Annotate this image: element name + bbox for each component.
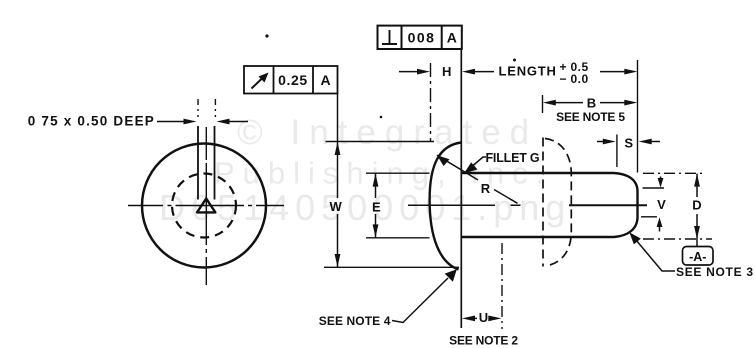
horizontal centerline [128, 205, 284, 207]
stray speck 3 [380, 116, 383, 119]
feature control frame 0.25 A [244, 66, 338, 94]
svg-text:0 75 x 0.50 DEEP: 0 75 x 0.50 DEEP [28, 113, 155, 128]
shank end ext line [637, 60, 639, 173]
hole width dim right arrow [228, 121, 248, 123]
svg-text:E: E [372, 199, 381, 214]
S left arrow [597, 141, 604, 143]
svg-text:H: H [442, 64, 451, 79]
W ext line top [326, 141, 435, 143]
R radius line [437, 155, 518, 203]
E ext line bottom [366, 237, 430, 239]
svg-text:D65140500001.png: D65140500001.png [159, 187, 571, 228]
W ext line bottom [324, 266, 459, 268]
svg-text:0.25: 0.25 [278, 72, 308, 88]
extension line left (dash-dot) [197, 99, 199, 117]
svg-text:SEE NOTE 2: SEE NOTE 2 [449, 333, 518, 347]
side view centerline [408, 204, 521, 206]
B left arrow [543, 100, 556, 106]
W bottom arrow [335, 254, 341, 267]
svg-text:LENGTH: LENGTH [499, 63, 557, 78]
head outline [430, 143, 461, 270]
svg-text:-A-: -A- [689, 250, 706, 264]
frame leader / W dimension line [337, 94, 339, 268]
runout symbol arrow [252, 78, 264, 89]
dashed circle (shank hidden) [172, 174, 236, 238]
hole edge right [214, 126, 216, 200]
vertical centerline [205, 127, 207, 285]
U left arrow [462, 316, 475, 322]
extension line right (dash-dot) [214, 99, 216, 117]
svg-text:U: U [479, 310, 488, 325]
svg-text:B: B [587, 96, 596, 111]
U right ext line (dash-dot) [501, 243, 503, 329]
W top arrow [335, 142, 341, 155]
shank outline [462, 173, 638, 237]
svg-text:−: − [560, 72, 567, 86]
LENGTH right arrow [600, 71, 626, 73]
V bottom tick [641, 216, 657, 218]
D top ext line [643, 172, 703, 174]
LENGTH left arrow [462, 69, 475, 75]
SEE NOTE 4 arrowhead [445, 269, 457, 282]
svg-text:W: W [330, 199, 343, 214]
svg-text:FILLET G: FILLET G [486, 151, 540, 165]
svg-text:S: S [624, 135, 633, 150]
svg-text:© Integrated: © Integrated [237, 113, 538, 152]
drill point triangle [197, 199, 215, 213]
FILLET G leader [466, 157, 486, 172]
E dimension line [375, 174, 377, 238]
SEE NOTE 3 arrowhead [629, 232, 641, 244]
svg-text:A: A [320, 72, 330, 88]
perpendicularity symbol [382, 30, 397, 44]
outer circle (head OD) [142, 144, 266, 268]
D bottom arrow [694, 226, 700, 239]
stray speck 2 [513, 59, 516, 62]
U right arrow [489, 317, 490, 319]
SEE NOTE 4 leader [392, 278, 448, 323]
E ext line top [366, 172, 430, 174]
svg-text:0.0: 0.0 [571, 72, 589, 86]
svg-text:008: 008 [408, 30, 436, 46]
svg-text:SEE NOTE 4: SEE NOTE 4 [319, 314, 391, 328]
driven head hidden bulge [545, 139, 571, 266]
D dimension line [696, 174, 698, 239]
H ext line [430, 63, 432, 141]
feature control frame perpendicularity 0.08 A [378, 26, 462, 49]
svg-text:D: D [692, 198, 701, 213]
hole edge left [197, 126, 199, 200]
S right arrow [639, 139, 652, 145]
S left ext line [616, 135, 618, 168]
SEE NOTE 3 leader [636, 240, 675, 271]
datum A connector [696, 239, 698, 247]
B ext line [542, 95, 544, 113]
V top tick [643, 187, 665, 189]
datum -A- box [683, 247, 714, 266]
svg-text:A: A [447, 30, 457, 46]
V top arrow [660, 177, 662, 181]
driven head hidden left face [542, 138, 544, 267]
head face vertical line [460, 49, 462, 328]
E bottom arrow [373, 224, 379, 237]
B right arrow [600, 102, 626, 104]
svg-text:SEE NOTE 3: SEE NOTE 3 [676, 265, 754, 279]
FILLET G arrowhead [464, 162, 478, 173]
stray speck 1 [265, 34, 268, 37]
svg-text:R: R [481, 181, 491, 196]
D bottom ext line [643, 238, 712, 240]
E top arrow [373, 174, 379, 187]
svg-text:V: V [657, 197, 666, 212]
V bottom arrow [659, 226, 661, 232]
R arrowhead [437, 155, 450, 166]
D top arrow [694, 174, 700, 187]
H left arrow [399, 71, 418, 73]
centerline bold segment [569, 204, 647, 206]
hole width dim left arrow [157, 121, 185, 123]
svg-text:SEE NOTE 5: SEE NOTE 5 [556, 110, 625, 124]
